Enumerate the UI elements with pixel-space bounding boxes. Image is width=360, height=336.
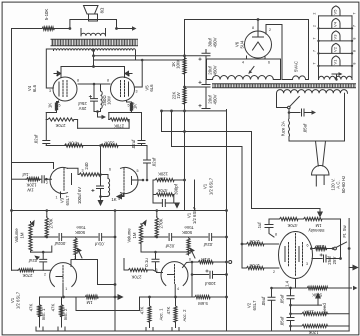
wire 5V winding left <box>282 25 293 80</box>
svg-text:1,4: 1,4 <box>285 280 290 287</box>
wire V5 plate <box>135 60 143 87</box>
svg-text:6L6: 6L6 <box>149 84 154 92</box>
svg-text:8: 8 <box>275 233 277 237</box>
wire cathode bottom <box>94 112 102 118</box>
labels upside-down <box>22 123 325 335</box>
wire feedback left vertical <box>11 29 13 271</box>
heater rung V2 <box>319 43 353 53</box>
svg-text:5-10K: 5-10K <box>44 9 49 21</box>
svg-text:3: 3 <box>82 169 84 173</box>
svg-text:240: 240 <box>84 162 89 170</box>
svg-text:10W: 10W <box>107 95 112 105</box>
plug AC <box>316 141 326 166</box>
resistor 270K ch1 <box>46 211 48 217</box>
svg-text:50-60 Hz: 50-60 Hz <box>341 176 346 193</box>
wire HV secondary box <box>207 56 281 80</box>
heater rung V3 <box>319 31 353 41</box>
svg-text:5VAC: 5VAC <box>294 61 299 72</box>
wire volume2 out <box>141 252 189 255</box>
wire feedback top <box>12 28 70 30</box>
svg-text:7: 7 <box>313 50 317 52</box>
resistor 510K <box>100 144 118 147</box>
svg-text:.02uf: .02uf <box>28 258 38 263</box>
svg-text:V3: V3 <box>60 197 65 203</box>
svg-text:500K: 500K <box>312 293 322 298</box>
svg-text:V2: V2 <box>247 302 252 308</box>
svg-text:Inst. 1: Inst. 1 <box>41 308 46 320</box>
svg-text:390pf: 390pf <box>173 183 178 195</box>
capacitor .05uf trem left <box>268 288 275 331</box>
svg-text:.05uf: .05uf <box>280 316 285 326</box>
svg-text:8: 8 <box>353 62 357 64</box>
resistor 470K parallel <box>153 180 155 203</box>
arrow rail mid <box>349 265 357 269</box>
svg-text:5: 5 <box>59 104 61 108</box>
svg-text:.1uf: .1uf <box>22 172 30 177</box>
svg-text:1: 1 <box>56 196 58 200</box>
wire long vertical to tremolo <box>252 132 321 209</box>
svg-text:7: 7 <box>313 62 317 64</box>
svg-text:Volume: Volume <box>14 228 19 243</box>
wire preamp top rail <box>12 210 227 212</box>
resistor 1K 10W <box>184 53 186 57</box>
ground arrow 390pf <box>174 203 179 208</box>
capacitor .02uf grid ch1 <box>40 252 47 270</box>
svg-text:6: 6 <box>189 258 191 262</box>
pin number labels <box>44 26 309 291</box>
wire V6 pin2 <box>266 25 282 35</box>
wire V1b grid <box>157 272 163 274</box>
svg-text:5U4: 5U4 <box>240 40 245 48</box>
resistor 240 <box>78 173 100 176</box>
resistor 470K tremolo <box>279 217 299 220</box>
svg-text:7: 7 <box>353 12 357 14</box>
svg-text:1/2 6SL7: 1/2 6SL7 <box>16 291 21 309</box>
svg-text:fuze 2A: fuze 2A <box>281 121 286 136</box>
wire primary right end <box>135 51 137 61</box>
svg-text:2.2K: 2.2K <box>201 257 210 262</box>
svg-text:Tone: Tone <box>76 225 86 230</box>
winding T2 primary <box>277 90 348 94</box>
svg-text:450V: 450V <box>213 94 218 104</box>
svg-text:4: 4 <box>128 74 130 78</box>
wire volume1 out <box>31 246 52 252</box>
capacitor 20uf 450V b <box>162 109 227 111</box>
svg-text:270K: 270K <box>249 263 259 268</box>
transformer T1 primary coil <box>54 49 136 51</box>
svg-text:1: 1 <box>65 287 67 291</box>
wire switch to fuse <box>288 109 290 119</box>
capacitor 20uf 450V a <box>185 85 211 109</box>
tube V3 6SL7 left half <box>50 168 67 194</box>
resistor 22K 1W <box>184 75 186 87</box>
svg-text:V1: V1 <box>10 297 15 303</box>
svg-text:3: 3 <box>49 89 51 93</box>
ground arrow heater CT <box>332 74 339 80</box>
wire speaker box <box>70 20 132 29</box>
svg-text:.01uf: .01uf <box>94 242 104 247</box>
capacitor .02uf ch2 out <box>189 234 227 241</box>
svg-text:25V: 25V <box>332 257 337 265</box>
winding heater 6.3V <box>319 76 353 79</box>
wire tremolo top <box>269 218 279 220</box>
resistor 270K grid V4 <box>45 113 47 120</box>
transformer T1 core <box>51 40 138 46</box>
svg-text:.1uf: .1uf <box>257 222 262 230</box>
svg-text:7: 7 <box>353 25 357 27</box>
svg-text:5: 5 <box>128 104 130 108</box>
svg-text:6: 6 <box>109 168 111 172</box>
svg-text:500K: 500K <box>75 230 85 235</box>
svg-text:1M: 1M <box>132 232 137 238</box>
heater ladder labels <box>313 9 357 65</box>
svg-text:470K: 470K <box>68 141 78 146</box>
arrow cathode out <box>353 286 358 290</box>
wire cathode bracket ch2 <box>191 262 193 297</box>
svg-text:6SL7: 6SL7 <box>252 300 257 311</box>
wire V1b cathode pin4 <box>174 285 176 298</box>
capacitor .002uf ch1 <box>31 234 76 241</box>
svg-text:V5: V5 <box>333 9 338 15</box>
svg-text:1M: 1M <box>20 232 25 238</box>
svg-text:.002uf: .002uf <box>54 241 67 246</box>
capacitor .05uf a <box>287 288 294 318</box>
wire B+ feed 1 <box>162 111 252 132</box>
wire speaker to secondary <box>81 29 106 36</box>
transformer T2 core <box>213 84 356 88</box>
arrow wiper ch1 <box>35 256 39 259</box>
svg-text:270K: 270K <box>159 218 164 228</box>
tube V1b half 6SL7 <box>161 262 188 286</box>
svg-text:8: 8 <box>252 26 254 30</box>
resistor 120K trem b <box>291 325 302 327</box>
svg-text:1K: 1K <box>111 197 116 202</box>
svg-text:1K: 1K <box>133 104 138 109</box>
svg-text:.02uf: .02uf <box>203 242 213 247</box>
svg-text:100uf 6V: 100uf 6V <box>77 187 82 204</box>
potentiometer Tone 500K ch2 <box>187 237 190 255</box>
svg-text:V2: V2 <box>333 46 338 52</box>
resistor 2.2K tremolo <box>312 248 314 250</box>
resistor 470K <box>64 144 84 147</box>
potentiometer Speed 500K <box>306 286 328 289</box>
svg-text:270K: 270K <box>131 275 141 280</box>
svg-text:450V: 450V <box>213 37 218 47</box>
resistor 270K grid ch1 <box>12 269 18 271</box>
wire V3b plate <box>132 179 144 181</box>
capacitor 100uf 6V <box>97 186 104 189</box>
heater rung V1 <box>319 56 353 66</box>
svg-text:4: 4 <box>56 74 58 78</box>
svg-text:6: 6 <box>307 244 309 248</box>
resistor 270K trem upper <box>242 243 246 245</box>
svg-text:4: 4 <box>118 197 120 201</box>
heater ladder rails <box>319 16 353 80</box>
tube V5 6L6 <box>111 77 135 101</box>
svg-text:.05uf: .05uf <box>280 294 285 304</box>
resistor 5-10K <box>42 27 55 30</box>
wire speed wiper <box>291 304 322 306</box>
svg-text:.02uf: .02uf <box>131 139 136 149</box>
wire primary left end to V4 plate <box>46 49 53 88</box>
capacitor .02uf PI out upper <box>144 146 151 181</box>
svg-text:8: 8 <box>77 79 79 83</box>
svg-text:Inst. 2: Inst. 2 <box>63 308 68 320</box>
resistor 270K trem lower <box>242 267 246 269</box>
svg-text:270K: 270K <box>55 123 65 128</box>
capacitor .02uf coupling right <box>109 113 145 146</box>
ground arrow cathode <box>102 115 107 119</box>
svg-text:.05uf: .05uf <box>261 296 266 306</box>
wire long vertical tremolo grids <box>241 147 243 269</box>
resistor 47K acc2 <box>175 297 177 305</box>
jack Acc 1 <box>146 328 153 332</box>
svg-text:Speed: Speed <box>322 303 327 316</box>
capacitor .01uf ch1 <box>76 234 116 241</box>
svg-text:0.1u: 0.1u <box>144 258 149 267</box>
svg-text:2.2K: 2.2K <box>315 244 324 249</box>
svg-text:1M: 1M <box>86 300 92 305</box>
svg-text:120K: 120K <box>26 183 36 188</box>
svg-text:4: 4 <box>242 61 244 65</box>
potentiometer Tone 500K ch1 <box>74 237 77 255</box>
arrow V5 screen <box>125 71 132 75</box>
svg-text:3: 3 <box>136 90 138 94</box>
svg-text:270K: 270K <box>249 239 259 244</box>
svg-text:5.6M: 5.6M <box>198 301 208 306</box>
svg-text:270K: 270K <box>114 124 124 129</box>
tube V6 5U4 <box>245 31 272 58</box>
capacitor 25uf 25V tremolo <box>312 255 341 262</box>
wire PI output line <box>46 145 147 147</box>
svg-text:510K: 510K <box>104 141 114 146</box>
jack Inst 1 <box>36 327 43 331</box>
svg-text:8: 8 <box>107 79 109 83</box>
heater rung V5 <box>319 6 353 16</box>
svg-text:5: 5 <box>156 268 158 272</box>
resistor 270K ch2 <box>156 211 158 217</box>
svg-text:100uf: 100uf <box>204 281 216 286</box>
wire CT to bus <box>94 55 185 57</box>
svg-text:.05uf: .05uf <box>303 123 308 133</box>
svg-text:8Ω: 8Ω <box>100 7 105 13</box>
wire B+ feed 2 <box>172 111 243 147</box>
wire V1a cathode <box>62 285 64 298</box>
wire V3a plate <box>68 168 79 174</box>
jack Inst 2 <box>58 327 65 331</box>
resistor 1K grid V5 <box>127 101 132 102</box>
svg-text:.02uf: .02uf <box>152 157 157 167</box>
resistor 120K trem a <box>291 313 302 315</box>
svg-text:Acc. 2: Acc. 2 <box>182 309 187 322</box>
wire V1a plate <box>71 260 115 285</box>
svg-text:1W: 1W <box>176 91 181 98</box>
ground arrow speaker <box>132 26 137 30</box>
wire cathode tie <box>78 83 110 85</box>
capacitor 390pf <box>162 200 165 207</box>
capacitor .1uf tremolo <box>265 219 274 237</box>
tube V1a half 6SL7 <box>50 263 77 287</box>
wire bus x114 <box>114 211 116 332</box>
wire channel link <box>76 297 150 311</box>
svg-text:Tone: Tone <box>184 225 194 230</box>
svg-text:47K: 47K <box>166 307 171 315</box>
wire parallel branch <box>194 180 196 210</box>
svg-text:120K: 120K <box>308 330 318 335</box>
resistor 5.6M <box>150 296 195 298</box>
wire V3b cathode arrow <box>117 192 124 199</box>
resistor 2.2K ch2 <box>192 261 198 263</box>
svg-text:6: 6 <box>268 61 270 65</box>
capacitor .05uf line <box>289 109 312 116</box>
svg-text:2: 2 <box>46 181 48 185</box>
resistor 47K inst2 <box>61 297 63 304</box>
switch Ft Sw <box>334 247 337 250</box>
arrow V4 screen <box>54 71 61 75</box>
resistor 1M <box>85 295 99 298</box>
svg-text:47K: 47K <box>140 307 145 315</box>
wire primary center tap <box>93 51 95 67</box>
svg-text:120K: 120K <box>158 172 168 177</box>
svg-text:1W: 1W <box>26 188 33 193</box>
resistor 120K 1W plate <box>154 178 175 181</box>
arrow junction 1M <box>116 295 123 299</box>
svg-text:10W: 10W <box>176 59 181 69</box>
heater rung V4 <box>319 18 353 28</box>
tube V3 6SL7 right half <box>121 168 138 194</box>
resistor 270K grid V5 <box>108 113 110 120</box>
tube V4 6L6 <box>53 77 77 101</box>
svg-text:4: 4 <box>177 287 179 291</box>
svg-text:450V: 450V <box>213 65 218 75</box>
svg-text:Intensity: Intensity <box>308 228 325 233</box>
transformer T1 secondary coil <box>81 33 106 36</box>
resistor 270K grid ch2 <box>124 259 127 271</box>
wire rectifier B+ top <box>185 20 309 211</box>
resistor 1K grid V4 <box>57 100 59 103</box>
svg-text:2: 2 <box>44 273 46 277</box>
wire 5V winding right <box>306 20 309 80</box>
svg-text:.02uf: .02uf <box>34 134 39 144</box>
svg-text:7: 7 <box>313 37 317 39</box>
wire plate rail right <box>94 59 185 61</box>
svg-text:V1: V1 <box>203 183 208 189</box>
wire V2 cathode <box>272 279 352 289</box>
resistor 47K inst1 <box>39 297 41 304</box>
winding HV secondary <box>213 75 274 79</box>
capacitor .05uf b <box>287 318 294 332</box>
wire V1b plate pin6 <box>183 262 193 268</box>
svg-text:8: 8 <box>353 37 357 39</box>
ground arrow V3a <box>98 197 102 206</box>
svg-text:47K: 47K <box>51 304 56 312</box>
svg-text:2: 2 <box>269 28 271 32</box>
potentiometer Volume 1M ch1 <box>29 222 32 252</box>
capacitor .1uf PI input <box>40 176 52 183</box>
svg-text:470K: 470K <box>287 223 297 228</box>
svg-text:6SL7: 6SL7 <box>65 195 70 206</box>
svg-text:Ft. Sw: Ft. Sw <box>342 225 347 238</box>
arrow to intensity <box>318 209 322 217</box>
wire 1M line <box>40 296 85 298</box>
speaker <box>84 6 99 22</box>
svg-text:3: 3 <box>306 262 308 266</box>
ground arrow line cap <box>312 110 317 114</box>
potentiometer Intensity 1M <box>303 217 323 220</box>
capacitor .02uf coupling left <box>43 120 50 146</box>
terminal circle <box>229 261 232 264</box>
potentiometer Volume 1M ch2 <box>139 224 142 244</box>
wire V3a cathode pin1 <box>60 192 62 198</box>
svg-text:47K: 47K <box>29 304 34 312</box>
svg-text:V1: V1 <box>187 212 192 218</box>
winding 5VAC <box>293 76 306 80</box>
wire ground bus bottom <box>36 330 349 332</box>
capacitor 30uf 450V <box>185 50 211 85</box>
capacitor .02uf ch2 <box>141 234 189 241</box>
svg-text:V4: V4 <box>333 21 338 27</box>
capacitor 100uf ch2 <box>192 271 227 278</box>
svg-text:.02uf: .02uf <box>165 244 175 249</box>
resistor 47K acc1 <box>149 297 151 305</box>
svg-text:1W: 1W <box>158 177 165 182</box>
wire V6 pin8 <box>257 20 259 38</box>
svg-text:1/2 6SL7: 1/2 6SL7 <box>192 206 197 224</box>
svg-text:500K: 500K <box>182 230 192 235</box>
svg-text:25V: 25V <box>79 106 87 111</box>
svg-text:2: 2 <box>273 270 275 274</box>
wire right rail <box>348 219 350 332</box>
wire grid bottom rail <box>78 127 130 129</box>
resistor 1K V3 cathode <box>101 175 110 197</box>
wire feedback to V3 grid <box>12 163 54 169</box>
svg-text:270K: 270K <box>22 273 32 278</box>
node PI divider <box>100 146 102 197</box>
svg-text:25uf: 25uf <box>78 101 87 106</box>
svg-text:1M: 1M <box>315 223 321 228</box>
capacitor 25uf 25V cathode <box>91 84 98 112</box>
svg-text:120K: 120K <box>304 310 314 315</box>
svg-text:Acc. 1: Acc. 1 <box>159 308 164 321</box>
svg-text:8: 8 <box>353 50 357 52</box>
ground arrow HV center tap <box>249 67 254 74</box>
wire AC bottom rail <box>289 93 345 141</box>
svg-text:1K: 1K <box>48 103 53 108</box>
switch power <box>277 93 288 107</box>
wire long vertical preamp feed <box>226 110 228 332</box>
svg-text:470K: 470K <box>157 188 167 193</box>
svg-text:5: 5 <box>137 169 139 173</box>
tube V2 6SL7 <box>279 232 313 279</box>
capacitor .1uf ch2 <box>152 252 159 270</box>
resistor 250ohm 10W cathode <box>101 84 103 112</box>
fuse 2A <box>288 119 289 142</box>
svg-text:6L6: 6L6 <box>32 84 37 92</box>
svg-text:3: 3 <box>74 256 76 260</box>
svg-text:Volume: Volume <box>127 228 132 243</box>
svg-text:V3: V3 <box>333 34 338 40</box>
svg-text:270K: 270K <box>49 218 54 228</box>
svg-text:A.C.: A.C. <box>336 180 341 188</box>
svg-text:1/2 6SL7: 1/2 6SL7 <box>209 177 214 195</box>
svg-text:2: 2 <box>313 25 317 27</box>
svg-text:2: 2 <box>313 12 317 14</box>
wire screen rail <box>61 67 125 78</box>
resistor 120K 1W PI input <box>12 178 26 180</box>
svg-text:V1: V1 <box>333 59 338 65</box>
jack Acc 2 <box>172 328 179 332</box>
